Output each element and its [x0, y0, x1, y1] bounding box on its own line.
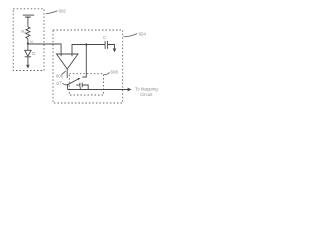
leader dT to switch	[62, 83, 66, 85]
photodiode module box 602	[13, 9, 44, 71]
node N junction dot	[27, 43, 29, 45]
comparator output lead	[66, 69, 68, 78]
svg-text:D: D	[32, 51, 35, 56]
photodiode D	[25, 44, 31, 65]
leader to 602	[46, 11, 57, 14]
wire resistor to node N	[27, 39, 29, 44]
svg-text:C: C	[103, 35, 106, 40]
svg-text:ΔT: ΔT	[56, 81, 62, 86]
feedback wire C junction to switch fixed contact	[82, 45, 86, 77]
wire junction to capacitor C	[86, 44, 105, 46]
sample-and-hold box 608	[69, 74, 103, 95]
ground arrow in 602	[26, 65, 30, 69]
junction dot at capacitor C node	[85, 43, 87, 45]
readout circuit box 604	[53, 30, 123, 103]
battery / bias supply	[23, 15, 34, 17]
ground arrow in 604	[113, 49, 117, 53]
leader to 604	[124, 34, 138, 37]
hold capacitor left lead	[76, 84, 80, 86]
wire comparator right input to C junction	[72, 45, 86, 57]
svg-text:606: 606	[56, 73, 64, 78]
leader to 606	[62, 71, 66, 75]
wire capacitor C to ground	[108, 45, 115, 49]
wire node N to comparator left input	[29, 44, 61, 56]
capacitor C plates	[105, 41, 107, 49]
switch lower lead	[67, 85, 69, 90]
sampling switch pivot dot	[67, 84, 69, 86]
svg-text:608: 608	[111, 69, 119, 74]
resistor Rb	[26, 27, 30, 39]
output arrowhead	[128, 88, 132, 92]
sampling switch blade	[68, 79, 79, 85]
svg-text:Circuit: Circuit	[140, 92, 153, 97]
wire battery to resistor	[27, 17, 29, 27]
svg-text:To Mapping: To Mapping	[135, 86, 158, 91]
comparator U 606	[57, 54, 79, 69]
switch blade arrowhead	[78, 78, 80, 81]
hold capacitor plates	[80, 83, 82, 88]
leader to 608	[104, 72, 110, 74]
svg-text:604: 604	[139, 31, 147, 36]
hold capacitor right lead	[82, 85, 88, 90]
hold capacitor tap to output node	[79, 87, 81, 89]
output wire to mapping circuit	[68, 89, 129, 91]
svg-text:602: 602	[59, 9, 67, 14]
svg-text:Rb: Rb	[21, 29, 26, 35]
